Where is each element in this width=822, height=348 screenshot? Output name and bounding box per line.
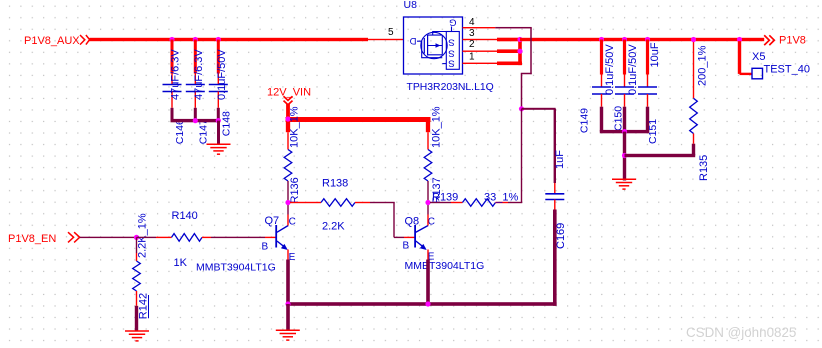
ground under C150 <box>612 178 636 180</box>
wire 12V drop left <box>286 122 290 132</box>
transistor U8 body box <box>404 17 463 74</box>
resistor R140 <box>137 237 157 238</box>
svg-text:MMBT3904LT1G: MMBT3904LT1G <box>405 260 485 272</box>
node junction C150 bottom <box>622 129 627 134</box>
node junction Q8 collector/R137/R139 <box>425 200 430 205</box>
svg-text:D: D <box>409 35 416 46</box>
svg-text:TEST_40: TEST_40 <box>764 64 810 76</box>
node junction Q7 collector/R136/R138 <box>285 200 290 205</box>
svg-text:3: 3 <box>469 28 475 39</box>
wire Q8 emitter <box>427 250 428 260</box>
U8 mosfet internals <box>427 35 429 56</box>
svg-text:R135: R135 <box>698 155 710 181</box>
wire P1V8_AUX bus (thick red) <box>90 38 369 41</box>
node junction C148 bottom <box>216 118 221 123</box>
svg-text:C146: C146 <box>174 119 186 144</box>
capacitor C149 top <box>600 40 603 75</box>
wire P1V8_EN to junction <box>80 237 137 238</box>
wire Q7 base stub <box>265 237 276 238</box>
port P1V8 <box>764 35 774 45</box>
svg-text:0.1uF/50V: 0.1uF/50V <box>604 44 616 95</box>
svg-text:0.1uF/50V: 0.1uF/50V <box>627 44 639 95</box>
svg-text:10K_1%: 10K_1% <box>289 106 301 148</box>
node junction P1V8_EN/R142 <box>134 235 139 240</box>
capacitor C150 top <box>623 40 626 75</box>
wire emitter bus <box>286 302 556 306</box>
svg-text:33_1%: 33_1% <box>484 191 518 203</box>
resistor R142 <box>136 237 137 253</box>
node junction Q8 emitter bus <box>425 301 430 306</box>
capacitor C147 <box>194 40 197 74</box>
svg-text:S: S <box>448 36 454 47</box>
svg-text:G: G <box>449 16 456 27</box>
svg-text:Q7: Q7 <box>265 215 280 227</box>
svg-text:47uF/6.3V: 47uF/6.3V <box>193 49 205 100</box>
capacitor C151 top <box>646 40 649 75</box>
svg-text:R136: R136 <box>289 177 301 203</box>
pin 4 stub <box>463 27 496 28</box>
svg-text:1: 1 <box>469 51 475 62</box>
ground under Q7/Q8 <box>276 329 300 331</box>
capacitor C148 <box>217 40 220 74</box>
node junction on bus at C146 <box>169 37 174 42</box>
svg-text:R140: R140 <box>172 210 198 222</box>
svg-text:R138: R138 <box>322 178 348 190</box>
wire Q8 collector <box>427 203 428 215</box>
resistor R137 <box>427 132 428 149</box>
svg-text:B: B <box>262 242 269 253</box>
testpoint X5 <box>738 41 741 74</box>
svg-text:1uF: 1uF <box>554 150 566 169</box>
wire to ground under C148 <box>217 121 220 144</box>
wire Q7 collector <box>287 203 288 215</box>
node junction on bus at C151 <box>645 37 650 42</box>
node junction R135 branch <box>622 153 627 158</box>
resistor R139 <box>430 202 451 203</box>
wire pins join vertical <box>518 38 522 65</box>
node junction Q7 emitter bus <box>285 301 290 306</box>
wire pin1 thick <box>497 62 522 66</box>
wire right caps bottom bus <box>600 130 649 133</box>
pin 2 stub <box>463 51 498 52</box>
svg-text:P1V8_EN: P1V8_EN <box>8 233 56 245</box>
svg-text:X5: X5 <box>752 51 765 63</box>
svg-text:S: S <box>448 47 454 58</box>
svg-text:MMBT3904LT1G: MMBT3904LT1G <box>196 262 276 274</box>
capacitor C146 <box>171 40 174 74</box>
svg-text:C150: C150 <box>613 106 625 131</box>
svg-text:10uF: 10uF <box>649 42 661 67</box>
node junction on bus at C150 <box>622 37 627 42</box>
node junction pin2 <box>517 49 522 54</box>
node junction 12V bar <box>285 116 290 121</box>
svg-text:C149: C149 <box>579 108 591 133</box>
svg-text:B: B <box>403 241 410 252</box>
pin 1 stub <box>463 63 498 64</box>
wire pin5 stub <box>368 39 404 40</box>
svg-text:200_1%: 200_1% <box>697 45 709 86</box>
wire Q7 emitter <box>287 250 288 260</box>
resistor R136 <box>287 132 288 149</box>
wire to R135 bottom <box>625 154 696 157</box>
capacitor C169 <box>554 183 555 194</box>
svg-text:U8: U8 <box>404 0 418 11</box>
wire pin2 thick <box>497 49 520 53</box>
U8 pin bay box <box>446 32 459 70</box>
wire cap bottom bus <box>171 119 220 122</box>
svg-text:P1V8_AUX: P1V8_AUX <box>24 35 80 47</box>
resistor R135 <box>693 42 694 99</box>
wire P1V8 bus (thick red) <box>520 38 764 41</box>
svg-text:2.2K: 2.2K <box>322 221 345 233</box>
wire 12V thick bar <box>286 117 431 122</box>
wire gate junction to C169 <box>522 108 556 110</box>
pin 3 stub <box>463 39 498 40</box>
svg-text:5: 5 <box>388 27 394 38</box>
wire pin3 thick <box>497 38 520 42</box>
U8 mosfet circle <box>421 32 447 58</box>
wire 12V drop right <box>426 122 430 132</box>
svg-text:S: S <box>448 58 454 69</box>
svg-text:R142: R142 <box>138 293 150 319</box>
svg-text:47uF/6.3V: 47uF/6.3V <box>170 49 182 100</box>
svg-text:1K: 1K <box>174 257 188 269</box>
wire R138 to Q8 base <box>393 203 394 238</box>
node junction gate net <box>519 106 524 111</box>
svg-text:P1V8: P1V8 <box>779 35 806 47</box>
node junction on bus at C149 <box>599 37 604 42</box>
wire gate junction to R139 <box>521 109 522 203</box>
node junction X5 <box>737 37 742 42</box>
node junction on bus at C147 <box>193 37 198 42</box>
svg-text:0.1uF/50V: 0.1uF/50V <box>216 49 228 100</box>
wire bus to ground <box>286 304 290 331</box>
transistor Q7 <box>275 225 277 248</box>
wire C150 to ground <box>623 132 626 181</box>
ground under C148 <box>207 143 231 145</box>
svg-text:C: C <box>289 217 296 228</box>
node junction pin3/bus <box>517 37 522 42</box>
transistor Q8 <box>414 225 416 248</box>
wire C169 bottom <box>553 210 557 306</box>
svg-text:10K_1%: 10K_1% <box>431 106 443 148</box>
node junction on bus at C148 <box>216 37 221 42</box>
wire pin4 net <box>495 27 532 29</box>
svg-text:Q8: Q8 <box>405 216 420 228</box>
svg-text:CSDN @john0825: CSDN @john0825 <box>686 325 796 340</box>
svg-text:C148: C148 <box>221 111 233 136</box>
svg-text:C147: C147 <box>198 119 210 144</box>
svg-text:TPH3R203NL.L1Q: TPH3R203NL.L1Q <box>407 82 494 93</box>
svg-text:C: C <box>428 217 435 228</box>
svg-text:R139: R139 <box>432 191 458 203</box>
node junction R135 top <box>691 37 696 42</box>
svg-text:4: 4 <box>469 17 475 28</box>
node junction C147 bottom <box>193 118 198 123</box>
svg-text:2: 2 <box>469 39 475 50</box>
resistor R138 <box>290 202 321 203</box>
ground under R142 <box>125 330 149 332</box>
svg-text:C169: C169 <box>555 223 567 249</box>
svg-text:2.2K_1%: 2.2K_1% <box>137 213 149 258</box>
svg-text:12V_VIN: 12V_VIN <box>267 86 311 98</box>
